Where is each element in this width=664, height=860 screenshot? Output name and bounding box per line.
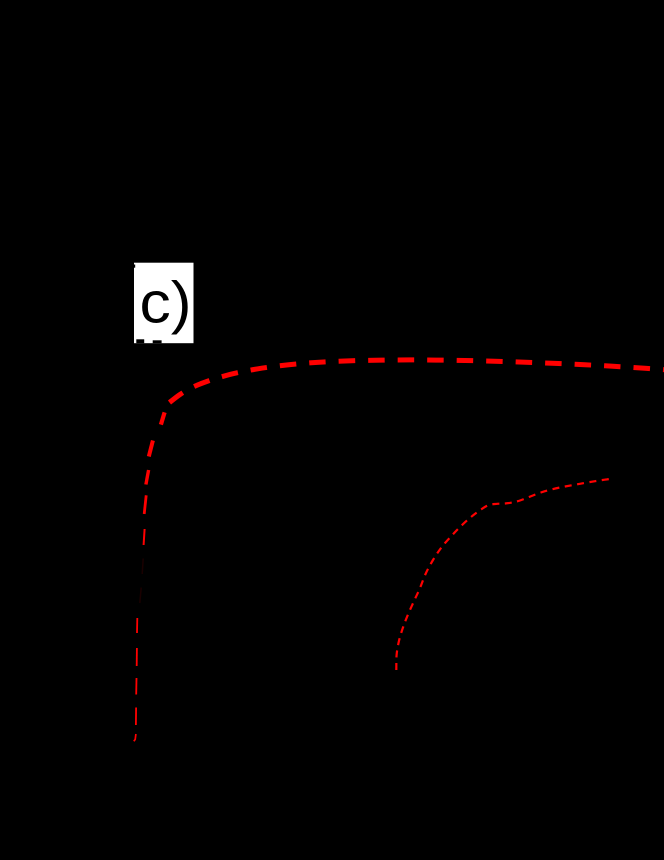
black mark 2 at box bottom (top of hidden tick label) xyxy=(153,340,162,343)
curve 1 (thick red dashed J-V curve): steep lower dash segments xyxy=(134,412,165,741)
curve 1 end dash with hook xyxy=(134,734,136,741)
curve 1 faint dash (obscured) xyxy=(140,588,141,604)
curve 1 dash near knee xyxy=(161,412,165,424)
curve 1 dash xyxy=(146,470,149,485)
curve 1 dash xyxy=(149,441,153,457)
curve 1 dash xyxy=(144,495,146,514)
curve 1 lower dash xyxy=(136,618,138,633)
svg-text:c): c) xyxy=(140,271,192,336)
black mark 1 at box bottom (top of hidden tick label) xyxy=(136,339,144,343)
curve 1 lower dash xyxy=(135,678,137,695)
notch at box top-left (clipped black glyph tail) xyxy=(134,265,135,268)
panel label box (white) xyxy=(134,263,194,344)
curve 1 lower dash xyxy=(135,708,137,726)
curve 1 faint dash (obscured) xyxy=(142,559,143,575)
curve 1 lower dash xyxy=(136,648,138,666)
curve 1 plateau (thick red dashed) xyxy=(170,360,664,403)
curve 2 (thin red dotted curve) xyxy=(396,479,614,671)
curve 1 dash xyxy=(144,529,145,545)
